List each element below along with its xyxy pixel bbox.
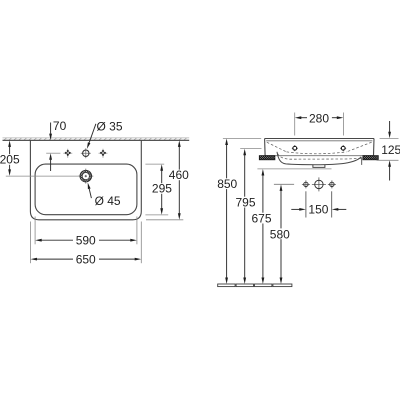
floor reference line for 675	[257, 168, 331, 170]
tap hole marker left (front)	[302, 180, 310, 188]
dim 460	[146, 140, 183, 219]
basin outer outline (top view)	[30, 140, 141, 220]
reference tick for 580	[274, 183, 294, 185]
drain trap tab	[313, 165, 325, 168]
svg-text:590: 590	[76, 234, 96, 248]
wall bracket right	[363, 156, 378, 160]
dim 295	[145, 164, 168, 215]
floor strip	[218, 284, 292, 287]
faucet hole front Ø35	[312, 177, 326, 191]
svg-text:795: 795	[236, 195, 256, 209]
svg-text:205: 205	[0, 153, 20, 167]
hidden bowl bottom curve	[287, 152, 347, 154]
dim 590	[35, 217, 137, 245]
dim 850	[223, 139, 261, 285]
visible underside smile curve	[277, 152, 361, 165]
rim inner line	[266, 140, 372, 142]
svg-text:Ø 35: Ø 35	[97, 119, 123, 133]
wall hatch marks	[4, 138, 187, 140]
svg-text:Ø 45: Ø 45	[95, 194, 121, 208]
hidden underside dashed line	[278, 154, 363, 160]
wall line	[3, 139, 190, 141]
hidden bowl edge dashes (left diagonal)	[267, 142, 287, 152]
svg-text:460: 460	[169, 168, 189, 182]
rim top line	[265, 138, 374, 140]
svg-text:70: 70	[53, 119, 67, 133]
drain hole Ø45	[78, 169, 93, 184]
svg-text:295: 295	[152, 182, 172, 196]
dim 650	[30, 222, 141, 264]
tap hole marker left	[63, 149, 72, 158]
tap hole marker right	[99, 149, 108, 158]
dim 125	[377, 121, 399, 181]
dim 150	[291, 191, 346, 217]
basin bottom rear line	[265, 155, 374, 157]
bowl corner right hook	[361, 158, 363, 165]
fixing hole left	[292, 145, 298, 151]
dim 675	[262, 169, 265, 284]
dim 580	[280, 184, 283, 284]
wall top faint line	[3, 137, 190, 139]
svg-text:150: 150	[308, 202, 328, 216]
svg-text:850: 850	[217, 177, 237, 191]
svg-text:675: 675	[252, 212, 272, 226]
dim 70 leader	[46, 123, 60, 172]
dim 205	[6, 140, 79, 176]
svg-text:280: 280	[309, 111, 329, 125]
basin right edge	[373, 139, 376, 156]
basin left edge	[264, 139, 267, 156]
hidden bowl edge dashes (right diagonal)	[347, 142, 372, 152]
faucet hole Ø35	[81, 148, 91, 158]
tap hole marker right (front)	[328, 180, 336, 188]
svg-text:125: 125	[381, 143, 400, 157]
svg-text:650: 650	[76, 252, 96, 266]
dim 280	[295, 113, 344, 136]
fixing hole right	[340, 145, 346, 151]
wall bracket left	[259, 156, 275, 160]
basin inner bowl outline	[35, 164, 137, 215]
svg-text:580: 580	[270, 227, 290, 241]
dim 795	[240, 148, 261, 284]
